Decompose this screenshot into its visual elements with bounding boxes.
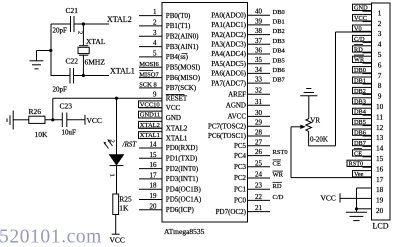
svg-text:PB5(MOSI): PB5(MOSI) <box>166 63 201 71</box>
svg-text:PD5(OC1A): PD5(OC1A) <box>166 196 202 204</box>
svg-text:5: 5 <box>378 50 382 59</box>
svg-text:17: 17 <box>376 175 384 184</box>
svg-text:RST0: RST0 <box>273 149 288 156</box>
connector pin 15 CE <box>353 149 384 163</box>
svg-text:7: 7 <box>378 71 382 80</box>
connector pin 1 GND <box>353 4 382 17</box>
pin 1 (PB0(T0)) left stub + labels <box>139 8 191 20</box>
wire XTAL1 right segment <box>74 75 110 77</box>
svg-text:20pF: 20pF <box>53 27 68 35</box>
wire wiper down <box>290 127 292 178</box>
svg-text:13: 13 <box>376 133 384 142</box>
connector pin 11 DB4 <box>353 108 384 121</box>
svg-text:38: 38 <box>255 27 263 35</box>
svg-text:PD6(ICP): PD6(ICP) <box>166 206 195 214</box>
svg-text:LCD: LCD <box>373 222 389 231</box>
wire reset to pin 9 <box>53 97 162 99</box>
connector pin 13 DB6 <box>353 129 384 142</box>
wire LED cathode to R25 <box>116 166 118 194</box>
svg-text:MOSI6: MOSI6 <box>139 61 159 68</box>
svg-text:PB7(SCK): PB7(SCK) <box>166 84 197 92</box>
svg-text:0-20K: 0-20K <box>310 135 328 143</box>
pin 38 (PA2(ADC2)) right stub + labels <box>211 27 285 39</box>
pin 12 (XTAL2) left stub + labels <box>139 121 188 132</box>
svg-text:39: 39 <box>255 17 263 25</box>
svg-text:VCC10: VCC10 <box>140 101 160 108</box>
svg-text:DB7: DB7 <box>354 140 366 147</box>
pin 16 (PD2(INT0)) left stub + labels <box>139 161 199 173</box>
svg-text:PA4(ADC4): PA4(ADC4) <box>211 50 246 58</box>
connector pin 14 DB7 <box>353 139 384 152</box>
svg-text:XTAL2: XTAL2 <box>166 124 188 132</box>
connector pin 4 C/D <box>353 35 382 48</box>
svg-text:DB1: DB1 <box>273 19 285 26</box>
connector pin 5 RD <box>353 45 382 59</box>
svg-text:40: 40 <box>255 8 263 16</box>
svg-text:VCC: VCC <box>166 104 181 112</box>
capacitor C21 <box>71 16 75 32</box>
connector pin 7 DB0 <box>353 67 382 80</box>
svg-text:2: 2 <box>378 19 382 28</box>
resistor R25 <box>113 194 119 215</box>
svg-text:PB2(AIN0): PB2(AIN0) <box>166 32 199 40</box>
svg-text:XTAL2: XTAL2 <box>107 15 132 24</box>
ground (reset, earth left) <box>7 111 13 130</box>
wire C23 to VCC <box>67 119 85 121</box>
wire pot bottom to V0 <box>309 32 372 146</box>
svg-text:3: 3 <box>378 29 382 38</box>
svg-text:GND11: GND11 <box>140 112 160 119</box>
pin 15 (PD1(TXD)) left stub + labels <box>139 151 198 163</box>
svg-text:VCC: VCC <box>87 116 102 125</box>
connector pin 19 <box>357 196 384 205</box>
pin 33 (PA7(ADC7)) right stub + labels <box>211 76 285 88</box>
svg-text:6: 6 <box>378 60 382 69</box>
svg-text:PD2(INT0): PD2(INT0) <box>166 165 199 173</box>
svg-text:RD: RD <box>354 46 363 53</box>
svg-text:C22: C22 <box>66 57 79 66</box>
svg-text:DB2: DB2 <box>354 88 366 95</box>
svg-text:18: 18 <box>150 182 158 190</box>
wire XTAL2 left segment <box>51 23 71 25</box>
svg-text:PA6(ADC6): PA6(ADC6) <box>211 70 246 78</box>
pin 29 (PC7(TOSC2)) right stub + labels <box>208 119 270 131</box>
pin 21 (PD7(OC2)) right stub + labels <box>216 204 270 216</box>
svg-text:DB0: DB0 <box>273 9 285 16</box>
pin 35 (PA5(ADC5)) right stub + labels <box>211 56 285 68</box>
power VCC (reset) <box>84 115 86 125</box>
svg-text:C/D: C/D <box>273 194 284 201</box>
pin 2 (PB1(T1)) left stub + labels <box>139 18 191 30</box>
wire reset node up <box>52 98 54 120</box>
svg-text:18: 18 <box>376 185 384 194</box>
capacitor C22 <box>70 68 74 84</box>
pin 11 (GND) left stub + labels <box>139 111 181 122</box>
svg-text:VR: VR <box>310 117 320 125</box>
node: LED branch junction <box>115 97 118 100</box>
wire XTAL1 left segment <box>51 75 71 77</box>
svg-text:PA7(ADC7): PA7(ADC7) <box>211 79 246 87</box>
connector pin 16 RST0 <box>347 160 384 173</box>
svg-text:DB5: DB5 <box>354 119 366 126</box>
svg-text:PB0(T0): PB0(T0) <box>166 12 191 20</box>
node: reset RC junction <box>51 118 54 121</box>
svg-text:9: 9 <box>153 91 157 99</box>
svg-text:14: 14 <box>376 144 384 153</box>
svg-text:SCK 8: SCK 8 <box>139 82 157 89</box>
svg-text:DB3: DB3 <box>273 38 285 45</box>
pin 40 (PA0(ADC0)) right stub + labels <box>211 8 285 20</box>
capacitor C23 <box>62 113 67 128</box>
wire XTAL2 right segment <box>74 23 109 25</box>
ground (crystal) <box>30 61 44 69</box>
svg-text:23: 23 <box>255 182 263 190</box>
connector pin 12 DB5 <box>353 119 384 132</box>
svg-text:XTAL1: XTAL1 <box>166 135 188 143</box>
pin 6 (PB5(MOSI)) left stub + labels <box>139 61 201 72</box>
svg-text:PB4(ss): PB4(ss) <box>166 53 189 61</box>
svg-text:11: 11 <box>376 112 383 121</box>
pin 3 (PB2(AIN0)) left stub + labels <box>139 29 199 41</box>
node: ground branch junction <box>49 49 52 52</box>
svg-text:PC5: PC5 <box>234 142 247 150</box>
svg-text:RD: RD <box>273 183 282 190</box>
svg-text:22: 22 <box>255 193 263 201</box>
svg-text:XTAL2: XTAL2 <box>140 122 160 129</box>
svg-text:PA2(ADC2): PA2(ADC2) <box>211 31 246 39</box>
svg-text:DB6: DB6 <box>354 130 366 137</box>
resistor R26 <box>29 116 45 123</box>
connector pin 20 <box>357 206 384 215</box>
svg-text:30: 30 <box>255 109 263 117</box>
svg-text:20: 20 <box>376 206 384 215</box>
svg-text:PB1(T1): PB1(T1) <box>166 22 191 30</box>
svg-text:19: 19 <box>150 192 158 200</box>
pin 7 (PB6(MISO)) left stub + labels <box>139 71 201 82</box>
pot wiper arrow <box>291 125 306 129</box>
svg-text:CE: CE <box>354 150 362 157</box>
ground (connector) <box>346 212 367 220</box>
IC U1 ATmega8535 body <box>162 3 248 223</box>
svg-text:PA0(ADC0): PA0(ADC0) <box>211 11 246 19</box>
node: crystal top junction <box>82 22 85 25</box>
pin 19 (PD5(OC1A)) left stub + labels <box>139 192 202 204</box>
wire crystal bottom <box>82 55 84 75</box>
pin 13 (XTAL1) left stub + labels <box>139 132 188 143</box>
svg-text:/RST: /RST <box>122 140 138 148</box>
pin 4 (PB3(AIN1)) left stub + labels <box>139 39 199 51</box>
svg-text:1: 1 <box>153 8 157 16</box>
svg-text:XTAL: XTAL <box>86 37 106 46</box>
LED emission arrows <box>103 139 112 148</box>
wire ground to pot top <box>308 96 310 119</box>
pin 18 (PD4(OC1B)) left stub + labels <box>139 182 201 194</box>
svg-text:R25: R25 <box>119 195 132 204</box>
connector pin 8 DB1 <box>353 77 382 90</box>
connector pin 6 WR <box>353 55 382 69</box>
svg-text:14: 14 <box>150 141 158 149</box>
svg-text:PC2: PC2 <box>234 174 247 182</box>
svg-text:1K: 1K <box>119 204 129 213</box>
svg-text:PA3(ADC3): PA3(ADC3) <box>211 41 246 49</box>
svg-text:8: 8 <box>378 81 382 90</box>
svg-text:2: 2 <box>77 31 84 34</box>
svg-text:5: 5 <box>153 49 157 57</box>
pin 25 (PC3) right stub + labels <box>234 159 281 171</box>
svg-text:35: 35 <box>255 56 263 64</box>
pin 31 (AGND) right stub + labels <box>226 98 270 110</box>
svg-text:1: 1 <box>378 8 382 17</box>
svg-text:15: 15 <box>376 154 384 163</box>
svg-text:C21: C21 <box>66 6 79 15</box>
wire ground branch <box>37 51 51 61</box>
connector pin 2 VCC <box>353 15 382 28</box>
svg-text:33: 33 <box>255 76 263 84</box>
svg-text:10uF: 10uF <box>62 129 77 137</box>
svg-text:PA5(ADC5): PA5(ADC5) <box>211 60 246 68</box>
svg-text:VCC: VCC <box>321 194 336 203</box>
svg-text:DB6: DB6 <box>273 67 286 74</box>
wire Vee to connector <box>291 177 372 179</box>
svg-text:28: 28 <box>255 129 263 137</box>
svg-text:GND: GND <box>354 5 368 12</box>
crystal Y1 (XTAL) <box>78 46 89 56</box>
svg-text:VCC: VCC <box>110 236 125 245</box>
svg-text:WR: WR <box>354 57 365 64</box>
svg-text:31: 31 <box>255 98 263 106</box>
svg-text:20pF: 20pF <box>53 86 68 94</box>
svg-text:DB2: DB2 <box>273 28 285 35</box>
pin 34 (PA6(ADC6)) right stub + labels <box>211 66 285 78</box>
svg-text:PC4: PC4 <box>234 152 247 160</box>
power VCC bar (connector) <box>339 193 341 202</box>
svg-text:27: 27 <box>255 138 263 146</box>
svg-text:17: 17 <box>150 171 158 179</box>
pin 23 (PC1) right stub + labels <box>234 182 282 194</box>
wire ground to R26 <box>13 119 29 121</box>
svg-text:R26: R26 <box>29 107 42 116</box>
pin 28 (PC6(TOSC1)) right stub + labels <box>208 129 270 141</box>
svg-text:PA1(ADC1): PA1(ADC1) <box>211 21 246 29</box>
svg-text:2: 2 <box>153 18 157 26</box>
potentiometer VR body (zigzag) <box>306 119 312 146</box>
svg-text:PD3(INT1): PD3(INT1) <box>166 175 199 183</box>
pin 37 (PA3(ADC3)) right stub + labels <box>211 37 285 49</box>
wire R25 to VCC <box>115 215 117 235</box>
svg-text:36: 36 <box>255 47 263 55</box>
svg-text:AGND: AGND <box>226 102 246 110</box>
svg-text:Vee: Vee <box>354 171 364 178</box>
ground (pot, inverted earth) <box>300 89 317 96</box>
svg-text:PC7(TOSC2): PC7(TOSC2) <box>208 122 247 130</box>
wire R26 to node <box>45 119 62 121</box>
connector pin 17 Vee <box>353 171 384 184</box>
connector J1 LCD body <box>372 3 391 220</box>
svg-text:16: 16 <box>150 161 158 169</box>
pin 22 (PC0) right stub + labels <box>234 193 284 205</box>
wire crystal top <box>82 24 84 45</box>
svg-text:PB3(AIN1): PB3(AIN1) <box>166 43 199 51</box>
svg-text:26: 26 <box>255 148 263 156</box>
pin 20 (PD6(ICP)) left stub + labels <box>139 202 194 214</box>
svg-text:20: 20 <box>150 202 158 210</box>
svg-text:10K: 10K <box>35 130 49 139</box>
svg-text:WR: WR <box>273 172 284 179</box>
pin 32 (AREF) right stub + labels <box>228 87 270 99</box>
wire crystal left vertical <box>50 24 52 76</box>
pin 5 (PB4(ss)) left stub + labels <box>139 49 189 61</box>
connector pin 10 DB3 <box>353 98 384 111</box>
wire VCC to connector pin 19 <box>340 197 357 199</box>
svg-text:MISO7: MISO7 <box>139 71 159 78</box>
connector pin 9 DB2 <box>353 87 382 100</box>
svg-text:16: 16 <box>376 164 384 173</box>
pin 39 (PA1(ADC1)) right stub + labels <box>211 17 285 29</box>
svg-text:19: 19 <box>376 196 384 205</box>
svg-text:PD4(OC1B): PD4(OC1B) <box>166 185 202 193</box>
svg-text:PB6(MISO): PB6(MISO) <box>166 74 201 82</box>
svg-text:ATmega8535: ATmega8535 <box>164 227 205 236</box>
svg-text:9: 9 <box>378 92 382 101</box>
svg-text:PC3: PC3 <box>234 163 247 171</box>
pin 17 (PD3(INT1)) left stub + labels <box>139 171 199 183</box>
svg-text:AREF: AREF <box>228 90 246 98</box>
pin 30 (AVCC) right stub + labels <box>227 109 270 121</box>
LED D1 (triangle + cathode bar) <box>110 155 124 166</box>
svg-text:1: 1 <box>109 174 116 177</box>
wire LED anode <box>116 98 118 154</box>
svg-text:XTAL1: XTAL1 <box>110 67 135 76</box>
svg-text:V0: V0 <box>354 26 362 33</box>
svg-text:12: 12 <box>376 123 384 132</box>
svg-text:21: 21 <box>255 204 263 212</box>
svg-text:AVCC: AVCC <box>227 113 246 121</box>
svg-text:6MHZ: 6MHZ <box>85 58 106 67</box>
svg-text:32: 32 <box>255 87 263 95</box>
svg-text:DB3: DB3 <box>354 98 366 105</box>
node: crystal bottom junction <box>82 74 85 77</box>
svg-text:29: 29 <box>255 119 263 127</box>
svg-text:PC1: PC1 <box>234 185 247 193</box>
svg-text:DB1: DB1 <box>354 78 366 85</box>
pin 36 (PA4(ADC4)) right stub + labels <box>211 47 285 59</box>
svg-text:37: 37 <box>255 37 263 45</box>
pin 26 (PC4) right stub + labels <box>234 148 288 160</box>
svg-text:DB7: DB7 <box>273 77 286 84</box>
power VCC (LED) <box>112 233 120 235</box>
pin 9 (RESET) left stub + labels <box>153 91 188 103</box>
svg-text:24: 24 <box>255 171 263 179</box>
pin 24 (PC2) right stub + labels <box>234 171 284 183</box>
svg-text:34: 34 <box>255 66 263 74</box>
svg-text:PD7(OC2): PD7(OC2) <box>216 208 247 216</box>
pin 14 (PD0(RXD)) left stub + labels <box>139 141 198 153</box>
pin 8 (PB7(SCK)) left stub + labels <box>139 82 197 93</box>
svg-text:PC6(TOSC1): PC6(TOSC1) <box>208 132 247 140</box>
svg-text:VCC: VCC <box>354 15 367 22</box>
svg-text:C23: C23 <box>60 102 73 111</box>
wire connector pins 18-20 vertical <box>356 188 358 212</box>
svg-text:RESET: RESET <box>166 94 188 102</box>
svg-text:4: 4 <box>378 40 382 49</box>
svg-text:DB4: DB4 <box>354 109 367 116</box>
svg-text:15: 15 <box>150 151 158 159</box>
svg-text:DB5: DB5 <box>273 57 285 64</box>
pin 27 (PC5) right stub + labels <box>234 138 270 150</box>
connector pin 3 V0 <box>353 25 382 38</box>
svg-text:10: 10 <box>376 102 384 111</box>
svg-text:PD1(TXD): PD1(TXD) <box>166 155 198 163</box>
svg-text:25: 25 <box>255 159 263 167</box>
svg-text:DB0: DB0 <box>354 67 366 74</box>
svg-text:DB4: DB4 <box>273 48 286 55</box>
svg-text:RST0: RST0 <box>349 161 364 168</box>
svg-text:XTAL1: XTAL1 <box>140 132 160 139</box>
svg-text:PC0: PC0 <box>234 197 247 205</box>
node: pin20 junction <box>355 207 358 210</box>
svg-text:520101.com: 520101.com <box>0 227 102 247</box>
svg-text:3: 3 <box>153 29 157 37</box>
svg-text:CE: CE <box>273 160 281 167</box>
svg-text:4: 4 <box>153 39 157 47</box>
svg-text:C/D: C/D <box>354 36 365 43</box>
pin 10 (VCC) left stub + labels <box>139 101 181 112</box>
svg-text:GND: GND <box>166 114 181 122</box>
connector pin 18 <box>357 185 384 194</box>
svg-text:PD0(RXD): PD0(RXD) <box>166 144 199 152</box>
